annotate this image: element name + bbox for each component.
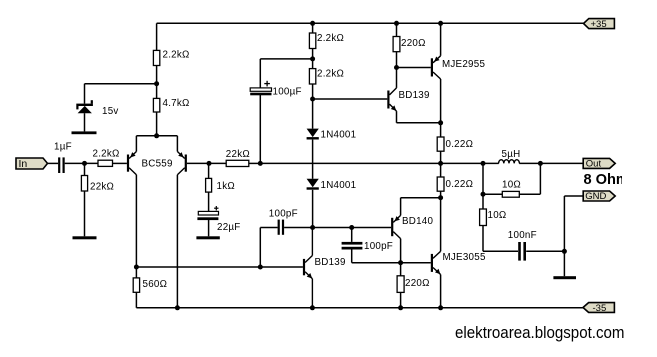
resistor 22kΩ input [81, 176, 114, 193]
wire BD140 emitter horizontal [401, 197, 441, 199]
wire tail resistor top [156, 23, 158, 50]
svg-text:1kΩ: 1kΩ [217, 181, 235, 192]
wire bootstrap top horizontal [260, 58, 312, 60]
wire to 0.22 upper [440, 123, 442, 137]
wire 2.2k to BC559 base [113, 162, 127, 164]
wire output line left of inductor [260, 162, 499, 164]
wire In tag to 1uF [47, 162, 58, 164]
svg-text:100pF: 100pF [269, 209, 298, 220]
ground input 22k [73, 236, 97, 239]
tag Out [583, 158, 615, 169]
wire 100pF2 top lead [351, 228, 353, 242]
wire BD139 top collector vertical [396, 68, 398, 88]
wire zener top [84, 84, 86, 104]
wire 0.22 upper to output [440, 151, 442, 163]
wire node A to 22k [84, 163, 86, 175]
wire between 2.2k and 4.7k [156, 66, 158, 99]
capacitor 22µF electrolytic [197, 206, 240, 233]
resistor 2.2kΩ input [93, 149, 120, 167]
resistor 10Ω vertical [480, 209, 507, 226]
svg-text:In: In [19, 158, 28, 170]
wire zener branch horizontal [85, 83, 157, 85]
wire output line right of inductor [519, 162, 583, 164]
svg-text:22µF: 22µF [217, 222, 241, 233]
wire rail to 2.2k string [312, 23, 314, 33]
transistor BD139 bottom (NPN) [303, 228, 346, 308]
svg-text:0.22Ω: 0.22Ω [446, 179, 474, 190]
svg-text:100µF: 100µF [273, 87, 302, 98]
wire 100pF2 bottom lead [351, 250, 353, 263]
wire output to 0.22 lower [440, 163, 442, 177]
wire 100pF1 left lead [260, 227, 277, 229]
wire 100nF left lead [483, 250, 518, 252]
wire GND vertical to ground [563, 196, 565, 276]
ground zener [72, 131, 97, 134]
capacitor 100pF left [269, 209, 298, 235]
svg-text:BD139: BD139 [399, 90, 430, 101]
wire node B to 1k [208, 163, 210, 178]
wire top +35 rail [157, 22, 584, 24]
node junction dots [82, 21, 567, 311]
wire 10ohm row left [483, 193, 502, 195]
svg-text:15v: 15v [102, 106, 119, 117]
svg-text:-35: -35 [593, 303, 607, 314]
wire 100uF top [259, 59, 261, 88]
wire BC559 right base to node B [187, 162, 226, 164]
transistor MJE3055 (NPN power) [431, 251, 486, 274]
transistor BD139 top (NPN driver) [387, 88, 429, 111]
wire BC559 left collector vertical [135, 175, 137, 267]
diode 1N4001 upper [307, 129, 357, 141]
capacitor 100pF right [342, 241, 393, 252]
ground output [553, 276, 576, 279]
wire BC559 right collector vertical [176, 175, 178, 308]
svg-text:560Ω: 560Ω [143, 279, 168, 290]
svg-text:0.22Ω: 0.22Ω [446, 139, 474, 150]
wire MJE3055 collector vertical [440, 198, 442, 252]
resistor 2.2kΩ string lower [309, 69, 344, 84]
wire 10ohm row up to output [539, 163, 541, 194]
wire 10ohm vertical to 100nF [482, 226, 484, 252]
wire BD139 top base [313, 98, 388, 100]
transistor BD140 (PNP) [391, 215, 433, 238]
resistor 2.2kΩ tail [153, 50, 189, 66]
svg-text:1N4001: 1N4001 [321, 180, 357, 191]
wire diode 1 to diode 2 [312, 140, 314, 179]
resistor 220Ω bottom [397, 276, 430, 293]
wire bottom -35 rail [136, 307, 583, 309]
resistor 2.2kΩ string upper [309, 33, 344, 49]
tag +35 [584, 19, 615, 30]
svg-text:1µF: 1µF [54, 142, 72, 153]
wire 4.7k to emitter harness [156, 112, 158, 136]
wire 10ohm row right [519, 193, 540, 195]
wire 100nF right lead [526, 250, 564, 252]
wire 0.22 lower to node D [440, 191, 442, 198]
resistor 0.22Ω lower [437, 177, 473, 191]
wire BD139 top emitter vertical [396, 111, 398, 123]
svg-text:2.2kΩ: 2.2kΩ [317, 33, 344, 44]
wire 22k feedback to bootstrap node [249, 162, 260, 164]
svg-text:BD139: BD139 [315, 257, 346, 268]
wire BC559 right emitter vertical [176, 136, 178, 152]
wire node C to BD140 base [313, 227, 392, 229]
svg-text:4.7kΩ: 4.7kΩ [163, 98, 190, 109]
zener diode 15v [76, 100, 118, 117]
wire zobel left vertical [482, 163, 484, 209]
transistor BC559 left (PNP) [127, 152, 136, 175]
svg-text:8 Ohm: 8 Ohm [584, 172, 629, 188]
resistor 1kΩ [206, 178, 235, 192]
svg-text:5µH: 5µH [502, 149, 521, 160]
transistor BC559 right (PNP) [142, 152, 187, 175]
svg-text:BC559: BC559 [142, 159, 173, 170]
wire emitter harness [136, 135, 177, 137]
wire 220 bottom to driver node [396, 52, 398, 68]
svg-text:22kΩ: 22kΩ [90, 182, 114, 193]
wire GND tag lead [564, 195, 583, 197]
svg-text:10Ω: 10Ω [488, 210, 507, 221]
wire 560 bottom lead [135, 292, 137, 308]
resistor 22kΩ feedback [226, 149, 250, 167]
wire to 220 bottom [400, 263, 402, 276]
svg-text:elektroarea.blogspot.com: elektroarea.blogspot.com [455, 323, 625, 342]
capacitor 1µF [54, 142, 72, 173]
wire between 2.2k a and b [312, 49, 314, 69]
wire BD139 emitter to MJE2955 collector [397, 122, 441, 124]
svg-text:220Ω: 220Ω [401, 38, 426, 49]
resistor 220Ω top [393, 37, 426, 52]
wire BD139 bottom base line [136, 266, 303, 268]
wire 2.2k b to diode 1 [312, 84, 314, 129]
wire MJE3055 emitter to rail [440, 275, 442, 308]
wire MJE2955 collector vertical [440, 79, 442, 123]
ground 22uF [196, 236, 219, 239]
wire BD140 collector vertical [400, 239, 402, 263]
wire 220 bottom to rail [400, 292, 402, 307]
tag GND [583, 191, 615, 202]
wire to MJE3055 base [352, 262, 431, 264]
resistor 10Ω horizontal [502, 180, 521, 198]
svg-text:100pF: 100pF [364, 241, 393, 252]
wire MJE2955 emitter to rail [440, 23, 442, 56]
svg-text:100nF: 100nF [508, 230, 537, 241]
wire 560 top lead [135, 267, 137, 278]
svg-text:22kΩ: 22kΩ [226, 149, 250, 160]
tag In [16, 158, 48, 170]
wire 1uF to 2.2k input [65, 162, 98, 164]
wire 220 top lead [396, 23, 398, 36]
wire BD140 emitter vertical [400, 198, 402, 216]
resistor 0.22Ω upper [437, 137, 473, 151]
svg-text:+35: +35 [591, 19, 607, 30]
svg-text:220Ω: 220Ω [405, 278, 430, 289]
tag -35 [583, 303, 614, 314]
wire 22k to ground [84, 191, 86, 236]
diode 1N4001 lower [307, 179, 357, 191]
wire diode 2 to node C [312, 190, 314, 228]
svg-text:10Ω: 10Ω [502, 180, 521, 191]
resistor 560Ω [133, 278, 167, 292]
svg-text:MJE2955: MJE2955 [442, 59, 485, 70]
inductor 5µH [499, 149, 521, 163]
svg-text:1N4001: 1N4001 [321, 130, 357, 141]
svg-text:BD140: BD140 [402, 216, 434, 227]
wire 100uF bottom to output line [259, 95, 261, 163]
transistor MJE2955 (PNP power) [431, 56, 486, 79]
wire 1k to 22uF [208, 192, 210, 211]
capacitor 100nF [508, 230, 537, 260]
svg-text:2.2kΩ: 2.2kΩ [317, 69, 344, 80]
svg-text:MJE3055: MJE3055 [443, 252, 486, 263]
svg-text:GND: GND [585, 191, 606, 202]
wire 22uF to ground [208, 220, 210, 236]
capacitor 100µF bootstrap [250, 81, 302, 98]
wire BC559 left emitter vertical [135, 136, 137, 152]
svg-text:2.2kΩ: 2.2kΩ [163, 50, 190, 61]
wire 100pF1 left vertical [259, 228, 261, 268]
svg-text:2.2kΩ: 2.2kΩ [93, 149, 120, 160]
wire 100pF1 right lead [284, 227, 313, 229]
wire zener to ground [84, 113, 86, 131]
wire MJE2955 base [397, 67, 431, 69]
resistor 4.7kΩ [153, 98, 189, 112]
svg-text:Out: Out [586, 158, 602, 169]
